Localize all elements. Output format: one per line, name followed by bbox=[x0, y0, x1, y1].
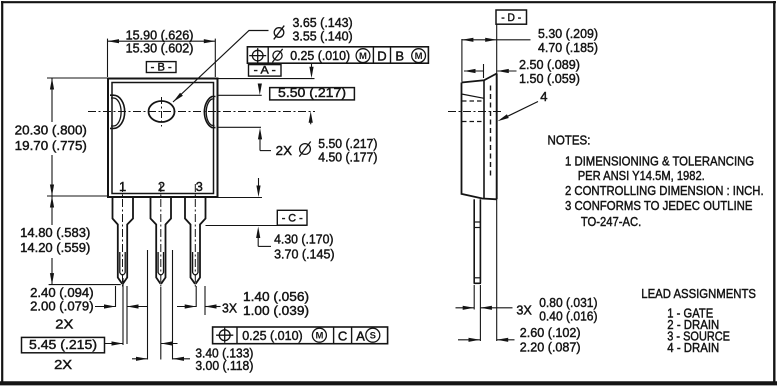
svg-text:3.70 (.145): 3.70 (.145) bbox=[274, 247, 335, 262]
bottom FCF tolerance text bbox=[242, 328, 303, 343]
side view centerline bbox=[448, 111, 504, 113]
extension line body right top bbox=[214, 39, 216, 77]
dimension arrows lead width 1.40 3X bbox=[177, 304, 221, 308]
svg-text:0.40 (.016): 0.40 (.016) bbox=[539, 309, 597, 324]
dimension line 15.90 bbox=[108, 39, 216, 43]
lead 1 number label bbox=[119, 179, 126, 194]
dimension text 1.40 (.056) bbox=[243, 289, 309, 304]
svg-text:LEAD ASSIGNMENTS: LEAD ASSIGNMENTS bbox=[641, 286, 756, 301]
dimension text 14.20 (.559) bbox=[20, 240, 90, 255]
extension line body top left bbox=[47, 77, 107, 79]
datum D box bbox=[496, 10, 527, 24]
dimension text 15.30 (.602) bbox=[126, 41, 194, 56]
lead 4 label bbox=[540, 89, 547, 104]
text 2X for notches bbox=[276, 143, 293, 158]
top FCF datum D bbox=[377, 48, 386, 63]
svg-text:2.00 (.079): 2.00 (.079) bbox=[30, 298, 94, 313]
text 3X for 1.40 bbox=[222, 300, 237, 315]
top FCF tolerance text bbox=[290, 48, 350, 63]
svg-text:A: A bbox=[356, 328, 365, 343]
side view tab hidden line bbox=[490, 86, 492, 177]
svg-text:M: M bbox=[315, 331, 323, 342]
note 2 bbox=[565, 183, 764, 198]
extension line body bottom left bbox=[47, 195, 107, 197]
svg-text:1.50 (.059): 1.50 (.059) bbox=[519, 71, 580, 86]
extension line lead3 narrow left bbox=[195, 286, 197, 307]
svg-text:3 CONFORMS TO JEDEC OUTLINE: 3 CONFORMS TO JEDEC OUTLINE bbox=[565, 198, 753, 213]
dimension text 1.00 (.039) bbox=[243, 303, 309, 318]
lead 2 outline bbox=[151, 184, 172, 289]
dimension arrows lead gap 3.40 bbox=[132, 357, 190, 361]
svg-text:C: C bbox=[338, 328, 347, 343]
extension line lead1 narrow right bbox=[126, 286, 128, 344]
svg-text:20.30 (.800): 20.30 (.800) bbox=[15, 123, 87, 138]
svg-text:3.55 (.140): 3.55 (.140) bbox=[293, 29, 353, 44]
side view body right edge bbox=[496, 74, 498, 200]
datum A box bbox=[249, 65, 282, 77]
basic dimension box 5.45 (.215) bbox=[22, 337, 105, 353]
front view package body outer outline bbox=[108, 79, 218, 198]
svg-text:3.65 (.143): 3.65 (.143) bbox=[293, 15, 353, 30]
dimension text 15.90 (.626) bbox=[126, 28, 194, 43]
svg-text:5.45 (.215): 5.45 (.215) bbox=[29, 337, 97, 352]
extension line lead shoulder bbox=[206, 225, 307, 227]
hole diameter text 3.65 (.143) bbox=[293, 15, 353, 30]
right side notch bbox=[204, 97, 215, 128]
svg-text:D: D bbox=[377, 48, 386, 63]
svg-text:2 CONTROLLING DIMENSION : INC: 2 CONTROLLING DIMENSION : INCH. bbox=[565, 183, 764, 198]
svg-text:2.60 (.102): 2.60 (.102) bbox=[520, 325, 581, 340]
bottom FCF datum A bbox=[356, 328, 365, 343]
svg-text:1.40 (.056): 1.40 (.056) bbox=[243, 289, 309, 304]
notch diameter text 4.50 (.177) bbox=[318, 149, 377, 164]
svg-text:1: 1 bbox=[119, 179, 126, 194]
svg-text:2X: 2X bbox=[276, 143, 293, 158]
svg-text:0.80 (.031): 0.80 (.031) bbox=[539, 295, 597, 310]
dimension text 0.80 (.031) bbox=[539, 295, 597, 310]
lead 1 outline bbox=[113, 184, 134, 289]
dimension text 19.70 (.775) bbox=[15, 138, 87, 153]
top FCF leader arrow bbox=[309, 63, 313, 78]
arrow to centerline from below bbox=[309, 111, 313, 124]
lead assignment 2 bbox=[667, 317, 719, 332]
dimension text 3.00 (.118) bbox=[195, 358, 253, 373]
bottom FCF circled S bbox=[366, 328, 380, 342]
svg-text:M: M bbox=[359, 51, 367, 62]
dimension text 2.40 (.094) bbox=[30, 285, 94, 300]
extension line body left top bbox=[107, 39, 109, 77]
front view package body inner outline bbox=[112, 83, 214, 194]
svg-text:14.20 (.559): 14.20 (.559) bbox=[20, 240, 90, 255]
arrow to body bottom right bbox=[256, 178, 260, 197]
arrow to notch top line bbox=[258, 84, 262, 96]
dimension 2.60 arrows bbox=[458, 338, 515, 342]
dimension text 5.30 (.209) bbox=[538, 26, 598, 41]
vertical dimension line 20.30/14.80 bbox=[50, 78, 54, 285]
lead 1 centerline extension bbox=[122, 278, 124, 345]
dimension text 2.00 (.079) bbox=[30, 298, 94, 313]
extension line lead tips left bbox=[49, 284, 121, 286]
dimension text 4.70 (.185) bbox=[538, 40, 598, 55]
svg-text:3X: 3X bbox=[516, 302, 532, 317]
svg-text:- D -: - D - bbox=[501, 12, 521, 24]
extension line for 3.40 left bbox=[147, 250, 149, 360]
svg-text:14.80 (.583): 14.80 (.583) bbox=[20, 225, 90, 240]
top FCF diameter symbol bbox=[272, 49, 282, 62]
dimension text 20.30 (.800) bbox=[15, 123, 87, 138]
dimension 5.30 line bbox=[462, 38, 531, 42]
top feature control frame box bbox=[247, 47, 428, 63]
mounting hole bbox=[149, 101, 175, 122]
extension line body top right bbox=[218, 78, 315, 80]
lead 4 leader bbox=[498, 102, 539, 122]
extension line body bottom right bbox=[218, 197, 262, 199]
note 1 line 2 bbox=[578, 168, 705, 183]
svg-text:B: B bbox=[395, 48, 404, 63]
lead assignment 3 bbox=[667, 329, 730, 344]
side view left extension line bbox=[461, 39, 463, 82]
side view hole hidden line top bbox=[462, 100, 484, 102]
lead 3 number label bbox=[196, 179, 203, 194]
svg-text:0.25 (.010): 0.25 (.010) bbox=[242, 328, 303, 343]
note 3 line 1 bbox=[565, 198, 753, 213]
hole diameter text 3.55 (.140) bbox=[293, 29, 353, 44]
extension line for 3.40 right bbox=[172, 250, 174, 360]
svg-text:3: 3 bbox=[196, 179, 203, 194]
svg-text:- C -: - C - bbox=[282, 212, 303, 224]
svg-text:- B -: - B - bbox=[151, 62, 172, 74]
top FCF datum B bbox=[395, 48, 404, 63]
lead 2 centerline extension bbox=[160, 287, 162, 360]
svg-text:M: M bbox=[415, 51, 423, 62]
bottom FCF datum C bbox=[338, 328, 347, 343]
svg-text:2X: 2X bbox=[55, 317, 73, 332]
dimension arrows lead width 2.40 bbox=[95, 304, 148, 308]
lead 3 outline bbox=[185, 184, 206, 289]
side lead extension right bbox=[479, 285, 481, 341]
svg-text:3X: 3X bbox=[222, 300, 237, 315]
svg-text:- A -: - A - bbox=[254, 65, 276, 77]
notch diameter leader bbox=[258, 128, 271, 151]
dimension text 14.80 (.583) bbox=[20, 225, 90, 240]
extension line lead1 narrow left bbox=[115, 286, 117, 307]
extension line lead3 narrow right bbox=[204, 286, 206, 315]
note 1 line 1 bbox=[565, 154, 754, 169]
text 2X above 5.45 box bbox=[55, 317, 73, 332]
leader for 4.30 dimension bbox=[256, 227, 271, 247]
svg-text:0.25 (.010): 0.25 (.010) bbox=[290, 48, 350, 63]
basic dimension box 5.50 (.217) bbox=[270, 85, 355, 100]
side lead extension left bbox=[473, 285, 475, 310]
svg-text:PER ANSI Y14.5M, 1982.: PER ANSI Y14.5M, 1982. bbox=[578, 168, 705, 183]
svg-text:2.20 (.087): 2.20 (.087) bbox=[520, 340, 581, 355]
dimension 2.50 arrows bbox=[464, 64, 517, 78]
horizontal centerline through hole bbox=[88, 111, 315, 113]
side view body outline bbox=[462, 74, 497, 200]
svg-text:4.30 (.170): 4.30 (.170) bbox=[274, 232, 333, 247]
text 2X below 5.45 box bbox=[54, 357, 72, 372]
hole diameter leader bbox=[173, 31, 269, 103]
svg-text:5.50 (.217): 5.50 (.217) bbox=[278, 85, 346, 100]
dimension text 2.60 (.102) bbox=[520, 325, 581, 340]
hole vertical centerline bbox=[161, 97, 163, 127]
note 3 line 2 bbox=[581, 214, 641, 229]
datum B box bbox=[146, 62, 176, 74]
svg-text:TO-247-AC.: TO-247-AC. bbox=[581, 214, 641, 229]
svg-text:NOTES:: NOTES: bbox=[548, 132, 591, 147]
side view hole hidden line bottom bbox=[462, 121, 484, 123]
top FCF position symbol bbox=[249, 48, 266, 63]
datum D extension line bbox=[496, 24, 498, 73]
svg-text:4 - DRAIN: 4 - DRAIN bbox=[667, 340, 719, 355]
svg-text:15.30 (.602): 15.30 (.602) bbox=[126, 41, 194, 56]
svg-text:1.00 (.039): 1.00 (.039) bbox=[243, 303, 309, 318]
svg-text:2.50 (.089): 2.50 (.089) bbox=[519, 57, 580, 72]
notes heading bbox=[548, 132, 591, 147]
dimension arrows lead pitch 5.45 bbox=[105, 341, 178, 345]
side view chamfer line bbox=[462, 94, 485, 98]
svg-text:3.00 (.118): 3.00 (.118) bbox=[195, 358, 253, 373]
dimension text 3.70 (.145) bbox=[274, 247, 335, 262]
datum D extension line lower bbox=[496, 199, 498, 341]
svg-text:4.70 (.185): 4.70 (.185) bbox=[538, 40, 598, 55]
bottom FCF position symbol bbox=[216, 328, 233, 343]
lead assignment 1 bbox=[667, 306, 713, 321]
bottom FCF circled M bbox=[312, 328, 326, 342]
left side notch bbox=[110, 95, 125, 128]
notch diameter text 5.50 (.217) bbox=[318, 136, 377, 151]
svg-text:4: 4 bbox=[540, 89, 547, 104]
dimension text 4.30 (.170) bbox=[274, 232, 333, 247]
extension line notch bottom bbox=[218, 126, 261, 128]
datum C box bbox=[277, 210, 307, 225]
lead 2 number label bbox=[158, 179, 165, 194]
bottom feature control frame box bbox=[213, 327, 388, 344]
hole diameter symbol bbox=[274, 26, 285, 40]
dimension 0.80 arrows bbox=[456, 306, 513, 310]
lead assignment 4 bbox=[667, 340, 719, 355]
svg-text:4.50 (.177): 4.50 (.177) bbox=[318, 149, 377, 164]
svg-text:2: 2 bbox=[158, 179, 165, 194]
svg-text:1 DIMENSIONING & TOLERANCING: 1 DIMENSIONING & TOLERANCING bbox=[565, 154, 754, 169]
lead assignments heading bbox=[641, 286, 756, 301]
side view lead outline bbox=[474, 199, 481, 283]
text 3X for 0.80 bbox=[516, 302, 532, 317]
svg-text:S: S bbox=[370, 331, 376, 342]
svg-text:5.30 (.209): 5.30 (.209) bbox=[538, 26, 598, 41]
dimension text 2.50 (.089) bbox=[519, 57, 580, 72]
dimension text 2.20 (.087) bbox=[520, 340, 581, 355]
dimension text 1.50 (.059) bbox=[519, 71, 580, 86]
svg-text:2X: 2X bbox=[54, 357, 72, 372]
extension line notch top bbox=[218, 94, 262, 96]
notch diameter symbol bbox=[299, 141, 310, 156]
dimension text 3.40 (.133) bbox=[195, 346, 253, 361]
svg-text:19.70 (.775): 19.70 (.775) bbox=[15, 138, 87, 153]
dimension text 0.40 (.016) bbox=[539, 309, 597, 324]
top FCF circled M 1 bbox=[356, 49, 370, 63]
top FCF circled M 2 bbox=[412, 49, 426, 63]
